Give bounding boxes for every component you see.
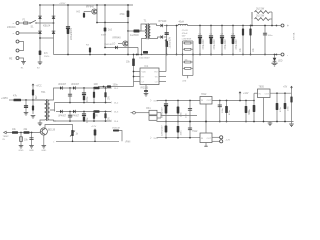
- wire T2 secondary bottom out: [50, 120, 56, 121]
- svg-text:470u: 470u: [87, 96, 89, 102]
- svg-text:+VCC: +VCC: [36, 86, 43, 88]
- wire secondary bottom to diode: [150, 37, 160, 39]
- bridge rectifier B1 left branch: [39, 5, 41, 38]
- wire Q3 collector up: [45, 125, 73, 131]
- capacitor CT timing: [98, 86, 134, 88]
- diode D6 secondary rectifier: [160, 35, 162, 38]
- svg-text:-: -: [287, 53, 288, 57]
- reference node glyph: [133, 111, 136, 114]
- wire 12V to 5V section: [253, 100, 255, 102]
- svg-text:2200u/25V: 2200u/25V: [161, 125, 163, 136]
- resistor R13 aux: [94, 87, 100, 89]
- diode D3 of bridge: [38, 31, 42, 34]
- capacitor C7 pre-filter: [166, 26, 168, 55]
- IC1 driver box: [140, 68, 159, 85]
- svg-text:15V: 15V: [108, 96, 110, 101]
- resistor R14 aux: [94, 110, 100, 112]
- wire fuse to switch: [28, 22, 30, 24]
- wire 7912 ground feed: [205, 122, 207, 134]
- transformer T1 core: [146, 23, 148, 39]
- wire drop after L1: [176, 26, 178, 55]
- ground aux divider: [31, 116, 36, 119]
- svg-text:GND: GND: [19, 150, 24, 152]
- svg-text:10R: 10R: [94, 84, 99, 86]
- svg-text:IR2153: IR2153: [141, 87, 149, 90]
- capacitor C14 output electrolytic: [226, 101, 228, 122]
- capacitor C20 temp filter: [20, 133, 22, 146]
- trimmer P1 fan speed: [71, 130, 73, 136]
- resistor R4 VCC feed: [133, 55, 135, 72]
- svg-text:40uH: 40uH: [179, 22, 185, 24]
- svg-text:+: +: [287, 24, 289, 28]
- svg-text:470u: 470u: [280, 106, 282, 112]
- resistor ladder balancing network: [182, 41, 184, 76]
- svg-text:220u/400V: 220u/400V: [70, 28, 73, 40]
- svg-text:HO: HO: [77, 11, 81, 14]
- svg-text:IRF840: IRF840: [86, 6, 95, 9]
- ground temp 2: [29, 146, 34, 149]
- transistor Q3 fan driver: [40, 128, 47, 135]
- svg-text:OUT: OUT: [207, 100, 212, 102]
- transformer T2 secondary winding: [48, 100, 50, 120]
- wire T2 secondary top out: [50, 88, 56, 100]
- svg-text:63V: 63V: [182, 36, 186, 38]
- aux filter component at x=70 cap: [69, 87, 71, 89]
- ground symbol below rail: [269, 122, 271, 124]
- svg-text:-12V: -12V: [226, 140, 231, 142]
- svg-text:GND: GND: [41, 150, 46, 152]
- aux filter component at x=84 el: [83, 87, 85, 89]
- svg-text:470u: 470u: [229, 109, 231, 115]
- wire to output terminal plus: [277, 25, 281, 27]
- svg-text:470u: 470u: [87, 117, 89, 123]
- wire aux to 7812 input: [157, 100, 201, 102]
- diode D12 fan control: [113, 130, 119, 132]
- capacitor C20 neg filter: [177, 122, 179, 138]
- ground temp 1: [19, 146, 24, 149]
- wire terminal 2 stub: [212, 140, 220, 142]
- wire switch to bridge right branch: [37, 22, 54, 24]
- ground temp 3: [42, 146, 47, 149]
- wire temp input: [6, 132, 40, 134]
- resistor R1 gate: [83, 12, 85, 19]
- wire aux positive rail: [56, 87, 111, 89]
- svg-text:IC1: IC1: [145, 65, 149, 68]
- diode D9: [60, 110, 62, 113]
- IC2 7812 regulator box: [200, 97, 212, 105]
- svg-text:PE: PE: [9, 58, 13, 61]
- capacitor C5 series DC block: [127, 23, 129, 32]
- aux filter component at x=105.5 zen: [105, 111, 107, 113]
- svg-text:100n/400V: 100n/400V: [139, 58, 150, 60]
- wire diode to sub rail: [119, 131, 122, 142]
- junction output minus: [276, 54, 278, 56]
- svg-text:UF4007: UF4007: [71, 115, 80, 117]
- resistor R3 discharge: [89, 48, 91, 55]
- resistor R9 dummy load lower: [255, 18, 270, 21]
- wire aux negative return rail: [54, 120, 112, 122]
- diode D5 secondary rectifier: [160, 24, 162, 27]
- svg-text:KBL04: KBL04: [43, 25, 51, 28]
- junction temp divider: [20, 132, 22, 134]
- diode D7: [60, 86, 62, 89]
- svg-text:15-3: 15-3: [114, 112, 119, 114]
- wire aux positive return rail: [55, 102, 112, 104]
- svg-text:BD139: BD139: [48, 130, 56, 132]
- svg-text:470u/63V: 470u/63V: [202, 39, 205, 50]
- connector out terminal 1: [220, 136, 223, 139]
- wire snubber column to rail: [104, 5, 106, 23]
- svg-text:LO: LO: [112, 43, 115, 46]
- capacitor C22 fan control: [94, 129, 96, 142]
- transformer T2 primary winding: [45, 100, 47, 120]
- fuse F1: [24, 22, 28, 24]
- svg-text:GND: GND: [29, 150, 34, 152]
- capacitor CY to earth: [39, 38, 41, 51]
- wire aux to 7912 input: [157, 137, 201, 139]
- junction bridge left top: [39, 4, 41, 6]
- wire output bus +50V: [164, 25, 178, 27]
- wire Q1 drain to rail: [96, 5, 98, 7]
- wire bridge minus down: [53, 38, 55, 55]
- capacitor C17: [276, 93, 278, 121]
- connector X1 terminal N: [16, 32, 19, 35]
- wire 7812 output: [212, 100, 254, 102]
- resistor ladder rung 2: [185, 48, 191, 50]
- svg-text:15-1: 15-1: [153, 101, 158, 103]
- LED power indicator: [274, 54, 276, 56]
- transistor Q2 MOSFET low side: [127, 31, 129, 39]
- wire secondary top to diode: [150, 24, 160, 26]
- svg-text:7805: 7805: [259, 86, 265, 89]
- wire trimmer down: [72, 136, 74, 141]
- connector output terminal minus: [281, 53, 284, 56]
- svg-text:2k2 5W: 2k2 5W: [256, 7, 265, 10]
- svg-text:〉: 〉: [150, 136, 153, 140]
- wire Q1 source to midpoint: [96, 16, 98, 23]
- wire diode join: [164, 36, 167, 38]
- ground of LED: [272, 63, 278, 66]
- wire Q2 source to negative rail: [127, 48, 129, 55]
- capacitor C16: [253, 101, 255, 122]
- svg-text:100n: 100n: [113, 84, 119, 87]
- bridge rectifier B1 right branch: [53, 5, 55, 38]
- aux filter component at x=94 res: [93, 111, 95, 113]
- resistor R19 series: [24, 131, 30, 133]
- svg-text:630V: 630V: [101, 34, 107, 36]
- svg-text:BYW29: BYW29: [159, 21, 168, 23]
- svg-text:15-2: 15-2: [114, 103, 119, 105]
- IC1 left pin stubs: [134, 71, 141, 73]
- wire HO rise: [165, 42, 167, 72]
- svg-text:100n: 100n: [268, 35, 274, 37]
- opto pins right: [157, 112, 161, 114]
- resistor ladder rung 4: [185, 67, 191, 69]
- wire fan control sub rail: [56, 140, 119, 142]
- IC1 right pin stubs: [159, 71, 166, 73]
- supply arrow +12V: [239, 95, 241, 101]
- aux filter component at x=70 cap: [69, 111, 71, 113]
- capacitor C15: [245, 101, 247, 122]
- wire Q3 emitter to ground: [43, 135, 45, 145]
- svg-text:UF4007: UF4007: [71, 84, 80, 86]
- wire +325V rail top: [40, 4, 133, 6]
- connector X1 terminal aux 2: [16, 49, 19, 52]
- 7912 bottom stub: [205, 143, 207, 147]
- capacitor C4 snubber: [104, 23, 106, 48]
- svg-text:2n2: 2n2: [108, 29, 113, 32]
- resistor R10 dropper: [9, 99, 45, 101]
- wire T2 left pin top: [33, 99, 45, 101]
- aux filter component at x=105.5 zen: [105, 87, 107, 89]
- wire N to bridge left branch: [19, 32, 40, 34]
- wire IC supply branch: [105, 47, 138, 49]
- jumper wire terminals 3-4: [19, 42, 24, 51]
- resistor ladder rung 3: [185, 61, 191, 63]
- wire Q3 base: [40, 131, 42, 133]
- svg-text:100u: 100u: [249, 108, 251, 114]
- wire 7805 output: [270, 92, 292, 94]
- svg-text:~: ~: [13, 32, 15, 36]
- svg-text:50V 8A: 50V 8A: [293, 32, 296, 40]
- resistor R11 R12 divider: [32, 87, 34, 101]
- capacitor C19 neg filter: [165, 122, 167, 138]
- svg-text:15-1: 15-1: [114, 88, 119, 90]
- capacitor C11 input filter: [165, 101, 167, 122]
- resistor R2 startup: [127, 5, 129, 23]
- svg-text:IRF840: IRF840: [113, 37, 122, 40]
- optocoupler OK1 box lower: [149, 116, 157, 121]
- capacitor C13 output: [219, 101, 221, 122]
- svg-text:LO: LO: [155, 82, 158, 84]
- svg-text:470u/63V: 470u/63V: [213, 39, 216, 50]
- svg-text:OUT: OUT: [207, 138, 212, 140]
- capacitor C21 base: [31, 133, 33, 146]
- junction secondary bus start: [166, 25, 168, 27]
- diode D2 of bridge: [52, 16, 56, 19]
- capacitor C8 filter electrolytic: [199, 25, 201, 27]
- svg-text:470k: 470k: [120, 14, 126, 16]
- resistor R6 bleeder: [242, 25, 244, 27]
- ladder bottom stub: [187, 76, 189, 79]
- svg-text:1u/250V: 1u/250V: [130, 34, 139, 37]
- transformer T1 secondary winding: [149, 24, 150, 39]
- capacitor C11 filter electrolytic: [232, 25, 234, 27]
- junction bridge right top: [53, 4, 55, 6]
- capacitor C18: [284, 93, 286, 121]
- transformer T1 primary winding: [145, 24, 146, 39]
- ground right end: [291, 122, 293, 124]
- capacitor C9 IC bypass: [145, 85, 147, 92]
- wire node to opto: [135, 112, 149, 114]
- aux filter component at x=94 res: [93, 87, 95, 89]
- resistor R7 bleeder: [250, 25, 252, 27]
- switch S1: [31, 20, 36, 23]
- transformer T2 core: [46, 99, 48, 121]
- diode D1 of bridge: [38, 16, 42, 19]
- ground of CY: [38, 62, 43, 65]
- svg-text:+5V: +5V: [283, 87, 288, 89]
- wire opto to regulator input: [161, 113, 197, 116]
- svg-text:100n: 100n: [181, 111, 183, 117]
- capacitor C6 coupling: [143, 51, 148, 54]
- wire 7912 output to terminals: [212, 136, 220, 138]
- junction base node: [31, 132, 33, 134]
- inductor L1: [178, 24, 188, 25]
- svg-text:100n: 100n: [288, 105, 290, 111]
- svg-text:470u/63V: 470u/63V: [224, 39, 227, 50]
- svg-text:LED: LED: [278, 61, 283, 63]
- wire 7805 ground pin: [263, 98, 265, 122]
- capacitor C1 bulk electrolytic: [67, 5, 69, 55]
- connector out terminal 2: [220, 140, 223, 143]
- wire T2 left pin bottom to ground: [40, 120, 45, 123]
- junction output plus: [276, 25, 278, 27]
- svg-text:+12V: +12V: [91, 126, 97, 128]
- connector X1 terminal PE: [16, 57, 19, 60]
- svg-text:1N4148: 1N4148: [112, 127, 120, 129]
- resistor R8 dummy load upper: [251, 12, 253, 26]
- svg-text:VDD: VDD: [142, 72, 147, 74]
- wire aux negative rail: [56, 111, 111, 113]
- svg-text:〉: 〉: [150, 99, 153, 103]
- wire secondary ground rail: [147, 54, 277, 56]
- svg-text:100n: 100n: [185, 112, 187, 118]
- svg-text:2200u/25V: 2200u/25V: [161, 107, 163, 118]
- svg-text:TR1: TR1: [41, 91, 46, 94]
- capacitor C9 filter electrolytic: [210, 25, 212, 27]
- resistor R17 load: [291, 93, 293, 121]
- svg-text:UF4007: UF4007: [58, 84, 67, 86]
- svg-text:7912: 7912: [192, 130, 198, 133]
- wire 7812 ground pin: [205, 104, 207, 122]
- svg-text:250V~: 250V~: [44, 56, 51, 58]
- wire Q1 gate stub: [84, 11, 91, 13]
- svg-text:2k2 5W: 2k2 5W: [256, 14, 265, 17]
- svg-text:+12V: +12V: [243, 93, 249, 95]
- capacitor C10 filter electrolytic: [221, 25, 223, 27]
- svg-text:100n: 100n: [222, 107, 224, 113]
- svg-text:15-4: 15-4: [153, 138, 158, 140]
- svg-text:OK1: OK1: [146, 108, 151, 110]
- diode D8: [73, 86, 75, 89]
- IC4 7912 regulator box: [200, 133, 212, 143]
- svg-text:TEMP: TEMP: [3, 136, 10, 138]
- svg-text:+325V: +325V: [59, 3, 66, 5]
- capacitor C20b neg small: [189, 122, 191, 138]
- earth ground PE: [21, 62, 26, 65]
- wire L to fuse: [19, 22, 24, 24]
- wire Q2 gate stub: [118, 43, 122, 45]
- svg-text:C5-C8: C5-C8: [182, 30, 189, 32]
- wire main ground rail bottom right: [157, 121, 294, 123]
- connector X1 terminal aux 1: [16, 40, 19, 43]
- svg-text:1000u/63V: 1000u/63V: [168, 37, 171, 49]
- svg-text:470u/63V: 470u/63V: [235, 39, 238, 50]
- aux filter component at x=84 el: [83, 111, 85, 113]
- net flag temp input: [4, 131, 7, 134]
- svg-text:470uF: 470uF: [182, 33, 189, 35]
- resistor ladder rung 1: [185, 42, 191, 44]
- wire T2 secondary center tap: [50, 103, 55, 111]
- svg-text:7812: 7812: [201, 93, 207, 96]
- wire PE terminal to earth: [19, 58, 23, 62]
- wire output bus after L1: [188, 25, 277, 27]
- junction rail dots: [104, 54, 106, 56]
- svg-text:+325V: +325V: [1, 97, 8, 100]
- diode D4 of bridge: [52, 31, 56, 34]
- resistor R18 input: [12, 131, 18, 133]
- connector output terminal plus: [281, 24, 284, 27]
- capacitor C10: [25, 99, 27, 101]
- svg-text:1N4148: 1N4148: [104, 44, 112, 46]
- capacitor C23 output hf: [264, 26, 266, 55]
- connector X1 mains input terminal L: [16, 22, 19, 25]
- svg-text:OUT: OUT: [265, 94, 270, 96]
- svg-text:15-4: 15-4: [114, 121, 119, 123]
- svg-text:HO: HO: [154, 72, 158, 74]
- IC3 7805 regulator box: [258, 89, 271, 98]
- diode D13 supply: [115, 46, 117, 49]
- svg-text:UF4007: UF4007: [58, 115, 67, 117]
- wire to output terminal minus: [277, 54, 281, 56]
- capacitor C12b small: [189, 101, 191, 122]
- svg-text:230VAC: 230VAC: [7, 26, 16, 29]
- wire primary negative rail: [54, 54, 147, 56]
- diode D10: [73, 110, 75, 113]
- wire half-bridge midpoint node: [97, 22, 128, 24]
- transistor Q1 MOSFET high side: [92, 7, 97, 16]
- svg-text:100n: 100n: [181, 130, 183, 136]
- optocoupler OK1 box upper: [149, 110, 157, 115]
- wire dummy load right join: [271, 12, 273, 26]
- bridge bottom bar: [40, 37, 54, 39]
- capacitor C12 input filter: [177, 101, 179, 122]
- resistor R12 lower: [32, 100, 34, 114]
